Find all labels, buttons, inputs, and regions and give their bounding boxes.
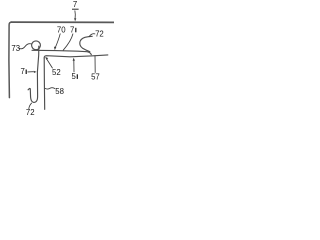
leader for 52 [47,60,52,69]
svg-text:70: 70 [57,25,66,34]
leader for 7 [74,11,76,19]
leader for 57 [94,56,96,73]
svg-text:5: 5 [72,72,77,81]
svg-text:7: 7 [21,67,25,76]
leader for 73 [19,44,31,49]
frame vertical 58 [43,58,46,109]
label 7 underline [72,8,79,10]
arrowhead 7 [74,18,76,21]
curl 72 right [80,36,92,51]
svg-text:52: 52 [52,68,61,77]
arrowhead 52 [45,57,48,60]
frame corner 52 horizontal 51/57 [44,55,108,58]
coil 73 [32,41,41,50]
panel top edge [11,21,114,23]
arrowhead 51 [73,58,75,61]
svg-text:72: 72 [26,108,35,117]
leader for 72 bottom [29,103,32,109]
flange line (pointed by 70,71) [32,50,91,54]
leader for 71 left [28,71,34,73]
svg-text:58: 58 [55,87,64,96]
panel left edge [9,22,12,98]
leader for 71 top [63,34,73,50]
leader for 58 [45,88,55,89]
svg-text:7: 7 [73,0,77,9]
svg-text:7: 7 [70,25,74,34]
arrowhead 71 left [34,71,37,73]
leader for 72 right [89,34,95,37]
svg-text:73: 73 [11,44,20,53]
svg-text:72: 72 [95,30,104,39]
arrowhead 70 [54,47,56,51]
svg-text:57: 57 [91,73,100,82]
leader for 51 [73,60,75,72]
leader for 70 [55,34,60,48]
strip vertical into bottom hook 72 [28,46,39,102]
